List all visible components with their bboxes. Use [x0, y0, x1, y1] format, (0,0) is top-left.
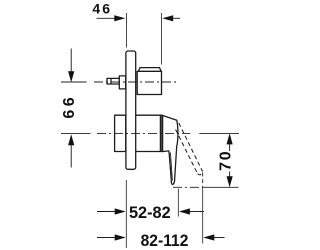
- extension line of 70 at lever tip axis: [203, 186, 238, 188]
- connection spindle rod: [107, 78, 119, 84]
- dimension 66 lower arrowhead: [68, 134, 74, 145]
- dimension 66 upper arrowhead: [68, 71, 74, 82]
- hub joint line 2: [162, 115, 164, 151]
- dimension 66 upper arrow shaft: [70, 49, 72, 74]
- extension line of 66 at valve axis: [61, 132, 91, 134]
- svg-text:70: 70: [217, 149, 234, 170]
- cartridge housing box: [137, 71, 161, 94]
- dimension 82-112 right arrow shaft: [214, 237, 225, 239]
- extension line of 70 at valve axis: [199, 132, 239, 134]
- lever raised position upper edge (dashed): [179, 123, 203, 172]
- extension line at wall face for 52-82 and 82-112: [125, 180, 127, 248]
- centerline top port axis: [94, 81, 178, 83]
- lever raised position tip (dashed): [198, 172, 203, 175]
- dimension 46 left arrowhead: [114, 15, 125, 21]
- dimension 82-112 right arrowhead: [203, 234, 214, 240]
- extension line at lever tip raised (dashed part): [202, 173, 204, 188]
- dimension 52-82 left arrow shaft: [97, 211, 116, 213]
- svg-text:46: 46: [92, 1, 112, 17]
- dimension 82-112 left arrow shaft: [97, 237, 116, 239]
- centerline lever tip axis: [173, 186, 203, 188]
- dimension 82-112 left arrowhead: [115, 234, 126, 240]
- dimension 70 lower arrowhead: [227, 176, 233, 187]
- extension line right of dimension 46: [161, 13, 163, 65]
- lever hub and handle blade (lowered position): [162, 115, 178, 184]
- dimension 66 lower arrow shaft: [70, 145, 72, 168]
- extension line at lever tip raised (solid part): [202, 187, 204, 244]
- hub joint line 1: [159, 115, 161, 151]
- handle blade inner contour: [170, 153, 172, 181]
- svg-text:82-112: 82-112: [141, 231, 189, 250]
- extension line at lever tip lowered: [177, 189, 179, 217]
- wall escutcheon plate: [126, 51, 136, 169]
- dimension 52-82 right arrow shaft: [189, 211, 204, 213]
- extension line left of dimension 46: [125, 13, 127, 48]
- dimension 46 left arrow shaft: [97, 17, 118, 19]
- centerline valve axis: [97, 132, 190, 134]
- dimension 52-82 right arrowhead: [179, 208, 190, 214]
- spindle joint line: [110, 78, 112, 84]
- dimension 70 line upper segment: [229, 142, 231, 151]
- lever raised position lower edge (dashed): [176, 130, 198, 174]
- spindle nut: [119, 76, 125, 89]
- dimension 52-82 left arrowhead: [115, 208, 126, 214]
- dimension 46 right arrow shaft: [170, 17, 180, 19]
- dimension 70 upper arrowhead: [227, 133, 233, 144]
- svg-text:66: 66: [61, 94, 78, 119]
- dimension 46 right arrowhead: [162, 15, 173, 21]
- svg-text:52-82: 52-82: [129, 203, 171, 222]
- extension line of 66 at top port axis: [61, 81, 87, 83]
- cartridge housing cap: [138, 68, 161, 72]
- valve body front section: [135, 115, 162, 151]
- concealed valve body (behind wall): [115, 115, 126, 151]
- dimension 70 line lower segment: [229, 172, 231, 178]
